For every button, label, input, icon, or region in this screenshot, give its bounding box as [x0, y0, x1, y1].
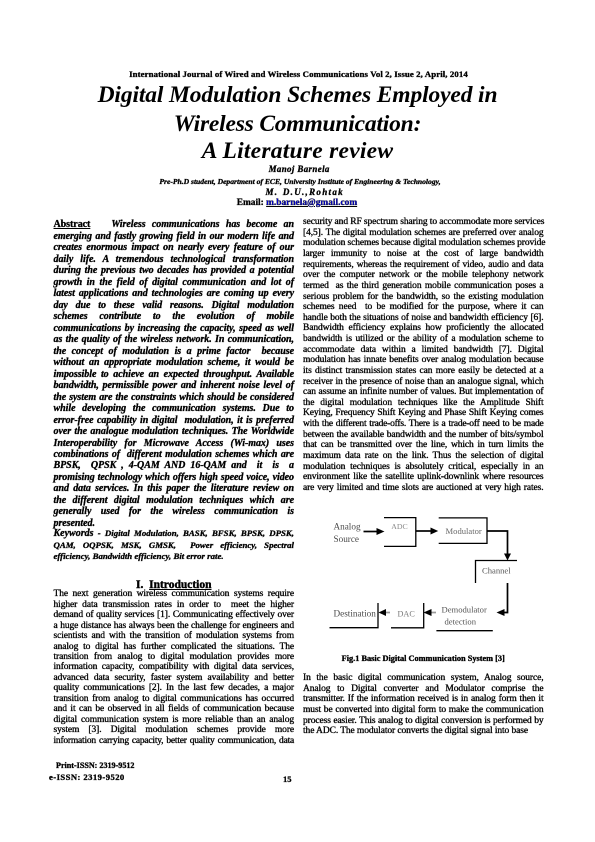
- svg-text:Source: Source: [334, 534, 360, 544]
- block modulator (left edge faded in scan): [439, 518, 487, 544]
- svg-text:detection: detection: [445, 617, 477, 627]
- svg-text:Analog: Analog: [334, 522, 361, 532]
- block channel (partially scanned box): [476, 561, 518, 584]
- svg-text:Modulator: Modulator: [446, 526, 482, 536]
- wire arrow: demodulator to DAC: [429, 612, 436, 614]
- analog source label: [334, 522, 361, 545]
- block ADC (left edge faded in scan): [384, 518, 416, 547]
- figure caption: [303, 654, 544, 664]
- svg-text:Channel: Channel: [482, 566, 511, 576]
- svg-text:DAC: DAC: [398, 610, 416, 619]
- svg-text:Destination: Destination: [334, 609, 377, 619]
- block destination (partially scanned box): [330, 603, 379, 628]
- wire: channel down to demodulator: [504, 583, 508, 613]
- wire arrow: ADC to modulator: [416, 530, 431, 532]
- wire arrow: analog source to ADC: [364, 531, 379, 533]
- figure: basic digital communication system block diagram: [300, 505, 550, 640]
- block DAC (partially scanned box): [391, 603, 424, 628]
- wire arrow: DAC to destination: [384, 612, 391, 614]
- wire: modulator to channel: [487, 531, 508, 554]
- svg-text:Demodulator: Demodulator: [442, 605, 487, 615]
- block demodulator (partially scanned box): [436, 630, 492, 632]
- svg-text:ADC: ADC: [391, 522, 407, 531]
